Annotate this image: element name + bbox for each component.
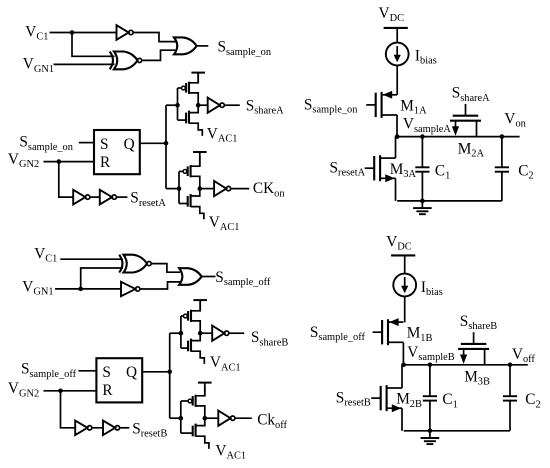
wire V_GN2 to latch U2 R input xyxy=(44,390,97,392)
wire S input to latch U1 xyxy=(79,142,94,144)
node ground tap bottom xyxy=(428,429,433,434)
svg-text:M2B: M2B xyxy=(396,391,422,410)
svg-text:SshareA: SshareA xyxy=(452,85,490,104)
wire V_DC to current source bottom xyxy=(404,255,406,273)
nmos stack4 xyxy=(193,418,209,449)
node stack1 gate junction xyxy=(175,103,180,108)
wire G11 to G12 xyxy=(92,427,103,429)
wire Q1 to stack2 gates xyxy=(166,188,179,190)
wire G8 output to OR top input xyxy=(151,264,180,273)
svg-text:Q: Q xyxy=(126,364,137,381)
wire V_GN2 branch to reset inverters bottom xyxy=(61,391,76,428)
wire latch U1 Q output xyxy=(140,142,166,144)
svg-text:SresetA: SresetA xyxy=(330,159,366,178)
svg-text:Voff: Voff xyxy=(512,346,536,365)
VDD tick stack2 xyxy=(193,152,207,166)
wire stack4 nmos gate xyxy=(181,432,193,434)
svg-text:SresetB: SresetB xyxy=(336,389,371,408)
wire Q1 vertical bus xyxy=(165,105,167,188)
wire current source to M1A xyxy=(396,65,398,95)
node V_off tap xyxy=(508,363,513,368)
svg-text:VGN1: VGN1 xyxy=(23,56,54,75)
transistor M1A xyxy=(366,91,397,118)
wire V_C1 branch to XNOR top input xyxy=(72,33,115,57)
node V_GN2 junction xyxy=(57,159,62,164)
node stack1 drain xyxy=(196,103,201,108)
wire V_C1 to XNOR top input xyxy=(60,258,123,260)
svg-text:VC1: VC1 xyxy=(25,23,48,42)
arrow M3B source xyxy=(460,355,467,364)
inverter G7 xyxy=(214,181,231,196)
transistor M2A xyxy=(450,104,481,121)
ground bottom xyxy=(421,431,440,444)
svg-text:Ibias: Ibias xyxy=(415,47,437,66)
capacitor C1 bottom xyxy=(423,365,437,431)
svg-text:S: S xyxy=(102,364,111,381)
capacitor C2 bottom xyxy=(503,365,517,431)
wire G14 output xyxy=(235,417,252,419)
svg-text:Ssample_off: Ssample_off xyxy=(310,324,366,343)
inverter G13 xyxy=(212,326,229,341)
pmos stack1 xyxy=(182,73,199,106)
wire stack4 gate bus xyxy=(180,401,182,433)
wire G3 output xyxy=(197,45,209,47)
svg-text:CKon: CKon xyxy=(253,180,285,199)
ground top xyxy=(413,201,432,214)
node V_on tap xyxy=(500,134,505,139)
node V_GN1 junction xyxy=(78,287,83,292)
wire V_GN1 branch to XNOR bottom input xyxy=(81,268,123,289)
svg-text:Ssample_on: Ssample_on xyxy=(304,97,358,116)
wire V_GN2 branch to reset inverters xyxy=(59,162,73,198)
inverter G14 xyxy=(218,411,235,426)
wire stack2 gate bus xyxy=(178,171,180,203)
svg-text:C1: C1 xyxy=(435,162,450,181)
svg-text:VAC1: VAC1 xyxy=(215,442,246,461)
wire M3B drain lead xyxy=(484,349,486,365)
wire stack4 drain to G14 xyxy=(205,417,219,419)
wire rail V_sampleB xyxy=(404,364,528,366)
svg-text:SresetB: SresetB xyxy=(132,420,167,439)
wire Q2 to stack4 gates xyxy=(170,417,181,419)
wire ground rail top xyxy=(397,200,502,202)
wire stack3 gate bus xyxy=(180,316,182,348)
inverter G11 xyxy=(75,421,92,436)
node stack2 drain xyxy=(198,186,203,191)
wire M3A drain up xyxy=(395,137,397,159)
SR latch U2 xyxy=(96,358,142,402)
wire stack3 pmos gate xyxy=(181,315,184,317)
node Q1 xyxy=(164,141,169,146)
node stack3 gate junction xyxy=(179,331,184,336)
svg-text:VDC: VDC xyxy=(379,5,405,24)
inverter G12 xyxy=(103,421,120,436)
wire G9 output to OR bottom input xyxy=(140,282,180,289)
wire V_GN2 to latch R input xyxy=(44,161,95,163)
nmos stack1 xyxy=(186,105,202,136)
wire G7 output xyxy=(231,188,250,190)
svg-text:VAC1: VAC1 xyxy=(207,125,238,144)
wire G5 output xyxy=(116,196,127,198)
svg-text:Ssample_off: Ssample_off xyxy=(215,269,271,288)
svg-text:M2A: M2A xyxy=(458,140,485,159)
svg-text:Ssample_on: Ssample_on xyxy=(19,134,73,153)
pmos stack3 xyxy=(184,301,201,334)
transistor M3A xyxy=(365,155,396,182)
svg-text:C2: C2 xyxy=(518,162,533,181)
nmos stack2 xyxy=(188,189,204,220)
svg-text:Ssample_off: Ssample_off xyxy=(21,361,77,380)
svg-text:M1A: M1A xyxy=(400,97,427,116)
node Q2 xyxy=(167,370,172,375)
arrow M2A source xyxy=(452,126,459,135)
wire Q2 to stack3 gates xyxy=(170,332,181,334)
current source I_bias bottom xyxy=(393,274,416,297)
node stack4 gate junction xyxy=(179,416,184,421)
wire M2B source down xyxy=(401,408,403,431)
svg-text:VDC: VDC xyxy=(386,233,412,252)
wire stack2 drain to G7 xyxy=(200,188,214,190)
or gate G3 xyxy=(174,37,197,54)
svg-text:Q: Q xyxy=(124,136,135,153)
wire M2A drain lead xyxy=(476,121,478,137)
svg-text:Ssample_on: Ssample_on xyxy=(218,39,272,58)
wire M2B drain up xyxy=(401,365,403,388)
wire G4 to G5 xyxy=(90,196,100,198)
svg-text:SshareA: SshareA xyxy=(246,97,284,116)
nmos stack3 xyxy=(188,333,204,364)
svg-text:S: S xyxy=(100,136,109,153)
node V_C1 junction xyxy=(70,30,75,35)
SR latch U1 xyxy=(94,130,140,174)
svg-text:Ibias: Ibias xyxy=(421,279,443,298)
wire V_C1 to inverter xyxy=(50,32,117,34)
wire stack1 gate bus xyxy=(177,88,179,120)
wire G13 output xyxy=(229,332,244,334)
VDD tick stack4 xyxy=(198,383,212,396)
svg-text:M3A: M3A xyxy=(390,161,417,180)
svg-text:VAC1: VAC1 xyxy=(210,354,241,373)
node V_sampleB xyxy=(401,363,406,368)
wire G10 output xyxy=(202,276,216,278)
wire stack1 pmos gate xyxy=(178,87,182,89)
inverter G5 xyxy=(100,190,117,205)
svg-text:R: R xyxy=(100,154,111,171)
wire Q1 to stack1 gates xyxy=(166,104,178,106)
wire M3B source lead xyxy=(463,349,465,360)
wire stack3 nmos gate xyxy=(181,347,188,349)
wire latch U2 Q output xyxy=(142,371,170,373)
wire M1B drain down xyxy=(402,342,404,365)
node V_GN2 junction bottom xyxy=(58,389,63,394)
wire M2A source lead xyxy=(455,121,457,132)
wire M3A source down xyxy=(395,178,397,201)
svg-text:VC1: VC1 xyxy=(34,245,57,264)
node stack3 drain xyxy=(198,331,203,336)
wire G1 output to OR top input xyxy=(133,33,176,42)
VDD tick stack1 xyxy=(191,73,205,83)
svg-text:VAC1: VAC1 xyxy=(209,214,240,233)
wire stack4 pmos gate xyxy=(181,400,188,402)
supply bar V_DC top xyxy=(384,27,408,29)
svg-text:VGN2: VGN2 xyxy=(8,151,39,170)
xnor gate G2 xyxy=(110,52,142,70)
svg-text:SshareB: SshareB xyxy=(460,313,497,332)
transistor M1B xyxy=(373,318,404,345)
node C1 bottom tap xyxy=(428,363,433,368)
wire current source to M1B xyxy=(404,296,406,322)
svg-text:C1: C1 xyxy=(442,391,457,410)
VDD tick stack3 xyxy=(193,300,207,310)
wire Q2 vertical bus xyxy=(169,333,171,418)
wire S input to latch U2 xyxy=(78,370,96,372)
transistor M2B xyxy=(371,385,402,412)
pmos stack4 xyxy=(188,386,205,419)
wire V_GN1 bottom xyxy=(55,288,121,290)
svg-text:SresetA: SresetA xyxy=(130,190,166,209)
wire stack2 pmos gate xyxy=(179,170,183,172)
svg-text:Ckoff: Ckoff xyxy=(257,412,287,431)
svg-text:VGN1: VGN1 xyxy=(22,278,53,297)
svg-text:M1B: M1B xyxy=(407,325,433,344)
svg-text:R: R xyxy=(102,382,113,399)
node ground tap top xyxy=(420,199,425,204)
pmos stack2 xyxy=(183,156,200,189)
wire G2 output to OR bottom input xyxy=(142,50,176,60)
inverter G6 xyxy=(208,98,225,113)
wire G12 output xyxy=(120,427,130,429)
wire V_DC to current source xyxy=(396,28,398,43)
wire stack3 drain to G13 xyxy=(200,332,212,334)
svg-text:VsampleB: VsampleB xyxy=(407,344,454,363)
svg-text:C2: C2 xyxy=(525,391,540,410)
wire stack1 nmos gate xyxy=(178,119,187,121)
xnor gate G8 xyxy=(119,255,151,273)
wire ground rail bottom xyxy=(404,430,510,432)
capacitor C2 top xyxy=(495,137,509,201)
wire V_GN1 to XNOR bottom input xyxy=(54,63,115,65)
svg-text:SshareB: SshareB xyxy=(251,329,288,348)
capacitor C1 top xyxy=(415,137,429,201)
svg-text:M3B: M3B xyxy=(464,369,490,388)
svg-text:VsampleA: VsampleA xyxy=(403,116,451,135)
node stack2 gate junction xyxy=(177,186,182,191)
transistor M3B xyxy=(458,332,489,349)
or gate G10 xyxy=(179,268,202,285)
inverter G4 xyxy=(73,190,90,205)
node C1 top tap xyxy=(420,134,425,139)
wire stack1 drain to G6 xyxy=(198,104,208,106)
inverter G9 xyxy=(121,282,140,297)
inverter G1 xyxy=(117,25,134,40)
svg-text:Von: Von xyxy=(504,110,526,129)
current source I_bias top xyxy=(386,43,409,66)
wire M1A drain down xyxy=(396,115,398,137)
svg-text:VGN2: VGN2 xyxy=(8,380,39,399)
wire G6 output xyxy=(224,104,240,106)
supply bar V_DC bottom xyxy=(391,254,415,256)
wire rail V_sampleA xyxy=(397,136,519,138)
node stack4 drain xyxy=(203,416,208,421)
node V_sampleA xyxy=(395,134,400,139)
wire stack2 nmos gate xyxy=(179,203,188,205)
